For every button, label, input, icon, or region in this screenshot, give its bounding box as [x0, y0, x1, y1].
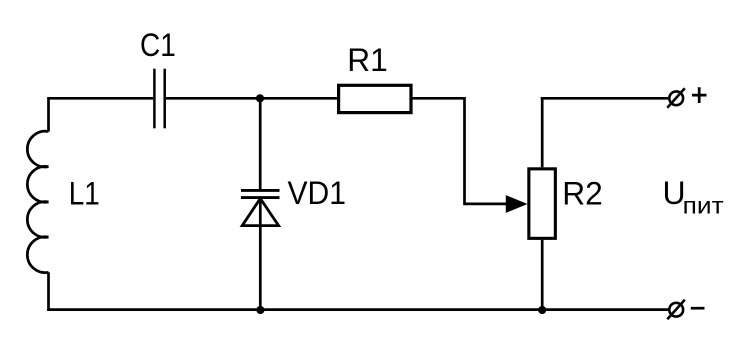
svg-text:VD1: VD1 [288, 175, 347, 211]
svg-text:R1: R1 [347, 42, 388, 78]
svg-text:пит: пит [683, 192, 725, 218]
svg-text:C1: C1 [140, 27, 176, 63]
svg-text:R2: R2 [562, 175, 603, 211]
svg-text:L1: L1 [69, 176, 100, 212]
